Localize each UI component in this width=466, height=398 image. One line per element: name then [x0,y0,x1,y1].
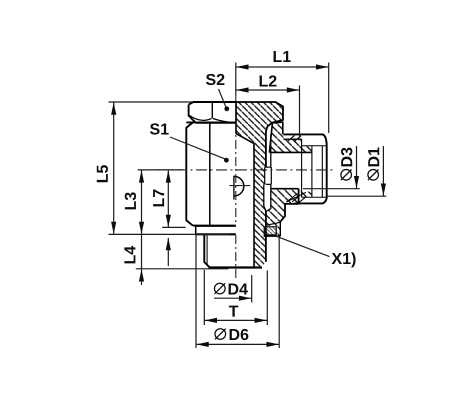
ring hatch bottom edge [266,222,280,225]
label S1 with leader [150,123,169,134]
male stud (external view) [283,134,326,203]
dimension D1 [328,195,387,197]
vertical centerline [235,96,237,102]
stud hex chamfer marks below axis [286,192,306,202]
nut S1 (external left of axis) [186,122,236,225]
ring void bottom edge (bore line) [271,188,299,190]
horizontal centerline [156,169,336,171]
auxiliary arrow under washer face [167,238,169,266]
dimension L3 [141,170,143,235]
dimension D3 [303,188,360,190]
widened clearance below port [264,184,267,206]
ring collar piece outline [269,122,282,152]
ext line: stud end [136,268,229,270]
banjo ring lower section hatch [266,189,299,236]
ext tick: nut bottom [162,226,185,228]
cross hole semicircle on axis [234,176,244,196]
dimension T [204,319,267,321]
port slot through ring inner wall [265,167,271,184]
label X1) with leader [332,252,356,267]
label S2 with leader [206,74,224,85]
bottom stud outline [204,234,209,267]
thread root lines [302,146,327,197]
dark wall edge left of seal [264,226,267,236]
below-axis band remnant [299,192,312,198]
ext line: washer face [109,233,231,235]
dimension L7 [167,170,169,228]
ring band bottom edge [269,151,312,153]
screw head outline (section right of axis) [236,102,283,132]
dimension L5 [113,102,115,234]
stud hex chamfer marks above axis [288,135,301,141]
ring right edge below axis [298,189,300,204]
ext line: centerline left [138,169,183,171]
ring band top edge [283,138,301,140]
dimension L4 (outside arrows) [141,234,143,285]
dimension L2 [236,89,300,91]
ring inner wall (clearance sliver) [266,135,271,212]
seal pocket wall [279,222,281,236]
dimension D6 [196,343,279,345]
head boundary on axis [235,101,237,133]
ring lower steps [280,204,298,222]
ext line: top of hex [109,101,194,103]
hex nut S2 (external left of axis) [189,102,236,122]
bore cone under head [236,134,254,144]
dimension L1 [236,66,329,68]
dimension D4 (half, arrow right) [214,297,251,299]
banjo ring upper section hatch (collar + band) [269,122,312,152]
thread runout [302,139,323,197]
hollow screw section hatch: head + outer wall + bottom stud wall [236,102,283,267]
screw outer wall [265,132,267,168]
screw bore wall [253,144,255,268]
washer under nut [196,225,236,227]
seal washer X1 [266,227,276,235]
